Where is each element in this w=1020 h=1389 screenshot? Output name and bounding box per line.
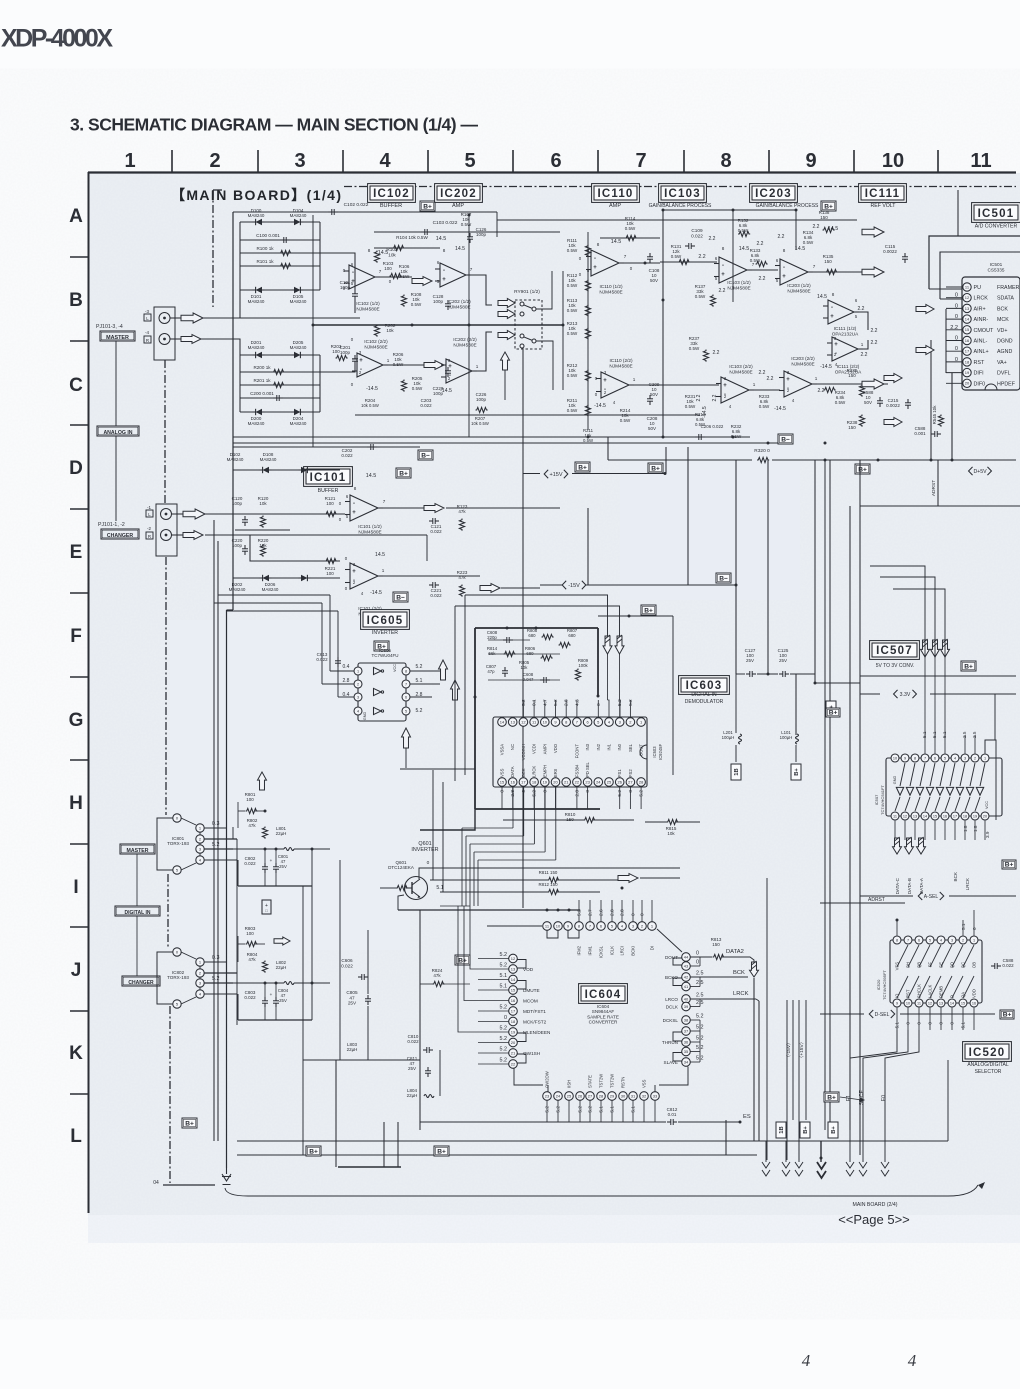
svg-text:8: 8 [722, 246, 725, 251]
wire DATA2 [691, 956, 713, 958]
svg-text:+: + [830, 314, 834, 320]
svg-text:MA8240: MA8240 [248, 213, 265, 218]
IC520 top pin 1 [970, 936, 978, 944]
capacitor C120 v [244, 516, 246, 520]
IC801 pin 2 [196, 835, 204, 843]
IC603 pin 12 [519, 718, 528, 727]
diode D204 [294, 409, 300, 415]
svg-text:R100 1k: R100 1k [256, 246, 274, 251]
wire BCK out [691, 976, 749, 978]
svg-text:B−: B− [781, 436, 790, 443]
svg-text:D+5V: D+5V [973, 469, 987, 475]
svg-text:NJM4580E: NJM4580E [729, 369, 752, 374]
top rail y210 [663, 209, 796, 211]
resistor R807 [559, 642, 571, 647]
svg-text:7: 7 [907, 938, 909, 942]
svg-text:1: 1 [973, 938, 975, 942]
resistor R133 [756, 261, 768, 266]
label DIGITAL IN box [115, 906, 160, 916]
B+ box bottom mid [434, 1146, 449, 1156]
vertical wire x787 [786, 1000, 788, 1160]
svg-text:MDT/FST1: MDT/FST1 [523, 1009, 546, 1014]
svg-text:LRCI: LRCI [620, 946, 625, 956]
svg-text:-15V: -15V [568, 583, 580, 589]
grid row tick [70, 256, 88, 258]
svg-text:37: 37 [684, 1028, 689, 1033]
arrow to relay 1 [498, 299, 515, 308]
svg-text:IN0: IN0 [617, 743, 622, 750]
resistor R320 [757, 457, 769, 462]
wire VCO inner 2 [488, 653, 560, 655]
op-amp IC103 1/2 [719, 257, 747, 283]
svg-text:0.01: 0.01 [668, 1112, 677, 1117]
svg-text:BCK: BCK [521, 768, 526, 777]
vertical x796 [795, 210, 797, 250]
svg-text:MAIN BOARD (2/4): MAIN BOARD (2/4) [853, 1202, 898, 1208]
svg-text:PD SEL: PD SEL [585, 761, 590, 777]
B- box IC101 [393, 592, 408, 602]
svg-text:25V: 25V [746, 658, 754, 663]
svg-text:GAIN/BALANCE PROCESS: GAIN/BALANCE PROCESS [649, 203, 712, 209]
wire R201 row [240, 384, 320, 386]
IC802 pin 2 [196, 969, 204, 977]
IC604 top-left corner wire [487, 925, 542, 927]
grid row tick [70, 508, 88, 510]
IC604 left pin wire [478, 958, 509, 960]
wire ADRST y899 [820, 902, 905, 904]
svg-text:2.2: 2.2 [712, 394, 718, 401]
label B- box analog [418, 450, 433, 460]
svg-text:NJM4580E: NJM4580E [609, 363, 632, 368]
grid column tick [683, 150, 685, 172]
svg-text:14: 14 [950, 1001, 954, 1005]
svg-text:150: 150 [712, 942, 720, 947]
svg-text:BUFFER: BUFFER [318, 488, 339, 494]
svg-text:0: 0 [500, 790, 506, 793]
resistor R132 [738, 231, 750, 236]
IC507 bottom pin 17 [951, 812, 959, 820]
wire digital bottom [303, 1059, 420, 1061]
grid column tick [597, 150, 599, 172]
svg-text:13: 13 [965, 306, 970, 311]
svg-text:0.5W: 0.5W [567, 373, 578, 378]
resistor R212 [585, 370, 590, 382]
IC604 left pin wire [478, 1063, 509, 1065]
grid row tick [70, 843, 88, 845]
svg-text:IC103 (1/2): IC103 (1/2) [727, 280, 751, 285]
svg-text:5.1: 5.1 [500, 973, 508, 979]
grid left border line [88, 172, 90, 1213]
svg-text:0.022: 0.022 [691, 233, 703, 238]
B+ box right col [826, 701, 836, 717]
IC604 bottom pin 28 [597, 1092, 606, 1101]
svg-text:SDATA: SDATA [997, 296, 1014, 302]
svg-text:FRAMER: FRAMER [997, 285, 1020, 291]
svg-text:22µH: 22µH [407, 1093, 418, 1098]
IC604 left pin 14 [509, 975, 518, 984]
svg-text:18: 18 [963, 814, 967, 818]
B+ box left x828 [826, 708, 840, 717]
svg-text:4: 4 [379, 150, 391, 172]
svg-text:AMP: AMP [452, 203, 464, 209]
svg-text:10: 10 [882, 150, 904, 172]
label 3.3V chevron [894, 690, 898, 698]
svg-text:18: 18 [965, 359, 970, 364]
nested corner wires to IC507 [870, 566, 925, 658]
svg-text:MCOM: MCOM [523, 998, 538, 1003]
IC603 pin 26 [615, 778, 624, 787]
wire opamp4 out [472, 332, 492, 371]
wire IC203a out [808, 271, 862, 273]
IC603 pin 19 [541, 778, 550, 787]
resistor R213 [585, 328, 590, 340]
wire x233b v [232, 827, 234, 839]
diode D206 [301, 575, 307, 581]
IC603 pin 11 [530, 718, 539, 727]
svg-text:25: 25 [567, 1093, 572, 1098]
bus jog [227, 609, 234, 611]
capacitor C812 [667, 1121, 671, 1123]
IC501 pin 12 [963, 294, 971, 302]
IC802 pin 5 bottom [173, 1000, 181, 1008]
svg-text:C: C [69, 375, 83, 396]
op-amp IC110 1/2 [591, 250, 619, 276]
wire IC103b out [749, 389, 780, 391]
IC501 pin wire [946, 340, 963, 342]
wire to C101 [320, 253, 355, 290]
IC507 top pin 9 [901, 754, 909, 762]
wire bus x940 [951, 373, 953, 460]
wire C200 row [240, 397, 320, 399]
svg-text:NJM4580E: NJM4580E [791, 361, 814, 366]
svg-text:5.1: 5.1 [932, 731, 937, 738]
IC604 bottom pin 33 [651, 1092, 660, 1101]
IC604 top-right diagonal [657, 929, 682, 952]
wire C201 branch [320, 365, 355, 372]
svg-text:5.2: 5.2 [628, 699, 634, 706]
svg-text:36: 36 [684, 1039, 689, 1044]
changer R arrow [183, 531, 203, 540]
wire right bus x860 [859, 460, 861, 1155]
IC520 bottom pin 9 [893, 999, 901, 1007]
svg-text:14.5: 14.5 [378, 250, 389, 256]
bottom chevron arrow [795, 1162, 803, 1168]
svg-text:GAIN/BALANCE PROCESS: GAIN/BALANCE PROCESS [756, 203, 819, 209]
resistor R201 [273, 382, 285, 387]
svg-text:8: 8 [405, 669, 407, 673]
IC603 pin 24 [594, 778, 603, 787]
B+ vertical box bottom a [800, 1122, 810, 1138]
resistor R810 [584, 817, 596, 822]
svg-text:HPDEF: HPDEF [997, 381, 1016, 387]
capacitor C115 [904, 253, 906, 257]
IC604 right pin 35 [682, 1047, 691, 1056]
svg-text:12: 12 [511, 956, 516, 961]
thick signal y324 [313, 324, 563, 326]
svg-text:2.6: 2.6 [599, 909, 605, 916]
wire digital bus y886 [238, 885, 312, 887]
wire out right IC101a [446, 507, 560, 509]
inductor L801 [284, 848, 294, 851]
IC603 pin 3 [615, 718, 624, 727]
svg-text:22µH: 22µH [276, 831, 287, 836]
svg-text:IC520: IC520 [876, 979, 881, 990]
label CHANGER box [101, 529, 139, 539]
vertical -15V wire [792, 1000, 794, 1120]
svg-text:DTC124EKA: DTC124EKA [388, 865, 414, 870]
svg-text:17: 17 [965, 349, 970, 354]
IC604 left pin wire [478, 1042, 509, 1044]
grid row tick [70, 340, 88, 342]
svg-text:0.5W: 0.5W [412, 386, 423, 391]
signal arrow after opamp3 [424, 361, 444, 370]
svg-text:0: 0 [427, 860, 430, 866]
svg-text:DIGITAL IN: DIGITAL IN [125, 910, 151, 916]
IC520 bottom pin 12 [926, 999, 934, 1007]
svg-text:2.2: 2.2 [759, 276, 766, 282]
wire opamp3 out [383, 364, 446, 366]
svg-text:27: 27 [628, 779, 633, 784]
inductor L101 [796, 734, 799, 744]
svg-text:5.2: 5.2 [500, 963, 508, 969]
svg-text:R545 10k: R545 10k [932, 405, 937, 425]
wire lower rail to arrow [560, 414, 700, 416]
IC605 pin 1 [354, 667, 362, 675]
svg-text:2.5: 2.5 [972, 731, 977, 738]
wire R200 row [240, 371, 320, 373]
IC604 top pin 4 [618, 922, 627, 931]
svg-text:2.2: 2.2 [759, 370, 766, 376]
svg-text:R320 0: R320 0 [754, 448, 770, 454]
svg-text:R811 150: R811 150 [539, 870, 558, 875]
svg-text:IN3: IN3 [585, 743, 590, 750]
long vertical x563 [562, 271, 564, 390]
op-amp IC111 1/2 [828, 300, 854, 324]
svg-text:0.5W: 0.5W [567, 248, 578, 253]
svg-text:IC102 (2/2): IC102 (2/2) [364, 339, 388, 344]
feedback vertical x663 [662, 210, 664, 437]
svg-text:VCOINH: VCOINH [521, 744, 526, 760]
svg-text:-: - [352, 270, 354, 276]
board outline left dash-dot v3 [165, 557, 167, 815]
svg-text:NJM4580E: NJM4580E [727, 285, 750, 290]
svg-text:8: 8 [896, 938, 898, 942]
IC501 pin wire [946, 297, 963, 299]
svg-text:0.5W: 0.5W [835, 400, 846, 405]
B+ box IC101 [396, 468, 411, 478]
wire x340 v [339, 860, 341, 1060]
resistor R815 [667, 819, 679, 824]
changer R sq [146, 532, 153, 539]
wire right bus x850 [849, 506, 851, 1130]
svg-text:CS5335: CS5335 [988, 267, 1005, 272]
IC501 pin wire [946, 307, 963, 309]
wire section divider y506 [860, 505, 1020, 507]
label +15V chevron [544, 470, 548, 479]
wire long y460 right [860, 459, 1016, 461]
IC501 pin 20 [963, 379, 971, 387]
IC507 diagonal wires [900, 763, 905, 786]
grid column tick [342, 150, 344, 172]
IC520 label box [963, 1042, 1012, 1062]
IC520 top pin 8 [893, 936, 901, 944]
capacitor C801 v [275, 863, 277, 867]
svg-text:B−: B− [421, 452, 430, 459]
svg-text:47k: 47k [248, 823, 256, 828]
IC501 pin 11 [963, 283, 971, 291]
IC507 top pin 4 [951, 754, 959, 762]
IC801 pin 0 top [173, 814, 181, 822]
svg-text:25: 25 [607, 779, 612, 784]
svg-text:OB: OB [972, 962, 977, 968]
svg-text:E0: E0 [881, 1095, 887, 1101]
svg-text:10k 0.5W: 10k 0.5W [361, 403, 379, 408]
svg-text:2.2: 2.2 [767, 376, 774, 382]
grid row tick [70, 592, 88, 594]
grid row tick [70, 424, 88, 426]
IC604 right pin 44 [682, 953, 691, 962]
IC605 chip outline [358, 663, 406, 721]
wire R815 row [645, 821, 667, 823]
IC604 right pin 43 [682, 962, 691, 971]
B+ box bottom left [306, 1146, 321, 1156]
B+ box on +15 rail [648, 463, 663, 473]
wire R803 row [238, 943, 245, 945]
pin label L sq [144, 314, 151, 321]
IC604 bottom pin 24 [554, 1092, 563, 1101]
vertical wire x767 [766, 878, 768, 1160]
wire IC605 out2 [410, 683, 440, 685]
IC507 top pin 6 [931, 754, 939, 762]
wire L802 row [233, 982, 284, 984]
capacitor C802 v [264, 863, 266, 867]
IC603 pin 20 [551, 778, 560, 787]
IC604 bottom-left corner [514, 1069, 543, 1086]
wire +15V rail [523, 473, 540, 475]
svg-text:220p: 220p [487, 635, 497, 640]
svg-text:C200 0.001: C200 0.001 [250, 391, 274, 396]
svg-text:FS1: FS1 [617, 769, 622, 777]
svg-text:25V: 25V [408, 1066, 416, 1071]
svg-text:20: 20 [553, 779, 558, 784]
IC604 left pin wire [478, 1021, 509, 1023]
svg-text:0.5W: 0.5W [411, 302, 422, 307]
svg-text:MA8240: MA8240 [260, 457, 277, 462]
svg-text:31: 31 [631, 1093, 636, 1098]
resistor R802 v [262, 827, 267, 839]
svg-text:OOUT: OOUT [639, 744, 644, 757]
svg-text:-14.5: -14.5 [440, 388, 452, 394]
resistor R108 v [401, 295, 406, 307]
vertical x469 [468, 215, 470, 437]
svg-text:-1: -1 [147, 505, 151, 510]
svg-text:+: + [448, 364, 452, 370]
svg-text:FCONT: FCONT [574, 744, 579, 759]
svg-text:11: 11 [893, 814, 897, 818]
svg-text:R200 1k: R200 1k [253, 365, 271, 370]
svg-text:10k: 10k [259, 543, 267, 548]
svg-text:7: 7 [470, 267, 473, 272]
capacitor C127 [746, 673, 750, 675]
B+ box bottom right [824, 1092, 839, 1102]
svg-text:FS384: FS384 [574, 764, 579, 777]
resistor R207 row [476, 407, 488, 412]
svg-text:5.2: 5.2 [500, 1047, 508, 1053]
svg-text:AMPI: AMPI [542, 744, 547, 754]
changer connector box [156, 504, 177, 556]
IC603 pin 4 [605, 718, 614, 727]
board outline corner [213, 189, 222, 191]
svg-text:14.5: 14.5 [375, 552, 385, 558]
svg-text:0: 0 [631, 913, 637, 916]
relay contact 1 [520, 302, 524, 306]
svg-text:0.5W: 0.5W [803, 240, 814, 245]
IC605 pin 8 [402, 667, 410, 675]
svg-text:24: 24 [556, 1093, 561, 1098]
vertical wire x799 [798, 1000, 800, 1160]
IC501 pin12 wire [940, 298, 963, 300]
relay contact 2 [520, 334, 524, 338]
IC604 top pin 5 [608, 922, 617, 931]
op-amp IC102 2/2 [357, 353, 383, 377]
signal arrow to IC501 a [884, 374, 902, 383]
capacitor C804 v [275, 997, 277, 1001]
IC501 pin 17 [963, 347, 971, 355]
wire IC110a out [620, 262, 660, 264]
resistor R111 [585, 245, 590, 257]
IC507 bottom pin 20 [981, 812, 989, 820]
diode D104 [294, 219, 300, 225]
svg-text:DVFL: DVFL [997, 371, 1011, 377]
svg-text:IC101: IC101 [310, 472, 347, 484]
svg-text:10: 10 [556, 923, 561, 928]
svg-text:CHANGER: CHANGER [107, 533, 133, 539]
svg-text:CHANGER: CHANGER [128, 980, 154, 986]
wire master2 to digital in [136, 854, 138, 906]
op-amp IC111 2/2 [832, 337, 858, 361]
svg-text:4.3: 4.3 [574, 699, 580, 706]
label vertical line from ANALOG IN [115, 436, 117, 521]
svg-text:B+: B+ [1005, 861, 1014, 868]
svg-text:NJM4580E: NJM4580E [599, 289, 622, 294]
wire L801 row [233, 848, 284, 850]
svg-text:4: 4 [908, 1351, 917, 1370]
wire diode row 2 [240, 289, 320, 291]
IC603 label box [679, 676, 730, 695]
capacitor C588b [991, 965, 995, 967]
IC111 label box [859, 184, 907, 203]
IC520 diagonal wires [897, 945, 908, 967]
IC603 pin 7 [573, 718, 582, 727]
svg-text:1B: 1B [779, 1126, 785, 1133]
wire IC103a out [747, 269, 778, 271]
IC604 left pin 19 [509, 1028, 518, 1037]
svg-text:0: 0 [596, 703, 602, 706]
svg-text:IC202 (1/2): IC202 (1/2) [447, 299, 471, 304]
top rail mid wire [497, 219, 857, 221]
wire IC802 pin1 [205, 961, 227, 963]
svg-text:14.5: 14.5 [436, 236, 447, 242]
svg-text:5.2: 5.2 [500, 1058, 508, 1064]
svg-text:15: 15 [933, 814, 937, 818]
IC604 top pin 7 [586, 922, 595, 931]
B+ box right of D-SEL [1000, 1010, 1014, 1019]
svg-text:B+: B+ [803, 1126, 809, 1134]
label D+5V chevron [969, 467, 973, 475]
wire IC605 in1 [330, 670, 354, 672]
signal arrow right low [862, 379, 884, 389]
IC520 top pin 3 [948, 936, 956, 944]
